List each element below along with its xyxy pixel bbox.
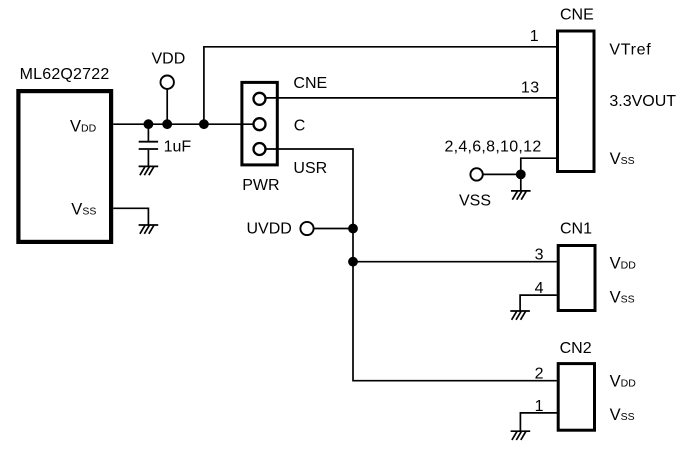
junction dot A2 <box>162 119 172 129</box>
PWR pin circle CNE <box>254 93 266 105</box>
svg-text:2: 2 <box>535 366 544 383</box>
junction dot B1 <box>348 224 358 234</box>
junction dot C1 <box>516 170 526 180</box>
svg-text:VTref: VTref <box>609 42 651 59</box>
connector PWR box <box>242 82 277 164</box>
ground at CN1 pin 4 <box>510 311 530 320</box>
wire to CNE pin 1 <box>204 47 557 124</box>
ground at VSS junction <box>511 191 531 200</box>
svg-text:VDD: VDD <box>152 50 186 67</box>
svg-text:ML62Q2722: ML62Q2722 <box>20 66 110 83</box>
capacitor C1 stem bottom <box>147 150 149 167</box>
svg-text:CN2: CN2 <box>560 340 592 357</box>
power terminal VDD circle <box>161 76 174 89</box>
junction dot B2 <box>348 257 358 267</box>
junction dot A1 <box>144 119 154 129</box>
connector CN1 box <box>558 246 595 311</box>
svg-text:VSS: VSS <box>459 193 491 210</box>
terminal UVDD circle <box>300 222 313 235</box>
svg-text:3: 3 <box>535 246 544 263</box>
capacitor C1 plates <box>139 141 158 143</box>
wire PWR USR down and right to CN2 pin 2 <box>267 149 557 381</box>
svg-text:CNE: CNE <box>560 7 594 24</box>
svg-text:CNE: CNE <box>293 75 327 92</box>
wire UVDD to vertical rail <box>314 228 353 230</box>
svg-text:CN1: CN1 <box>560 221 592 238</box>
wire VSS terminal to junction <box>484 173 521 175</box>
connector CN2 box <box>558 364 594 431</box>
capacitor C1 stem top <box>147 124 149 141</box>
wire VDD main rail <box>113 123 253 125</box>
svg-text:1uF: 1uF <box>164 139 192 156</box>
wire CNE VSS pin to ground rail <box>521 158 557 191</box>
ground at CN2 pin 1 <box>511 431 531 440</box>
svg-text:USR: USR <box>293 160 327 177</box>
ground for IC VSS <box>139 225 159 234</box>
PWR pin circle C <box>254 118 266 130</box>
IC U1 ML62Q2722 box <box>18 91 111 242</box>
ground under capacitor <box>139 166 159 175</box>
junction dot A3 <box>199 119 209 129</box>
wire CN1 pin 4 to ground <box>520 295 557 311</box>
svg-text:PWR: PWR <box>242 177 279 194</box>
svg-text:UVDD: UVDD <box>247 221 292 238</box>
svg-text:1: 1 <box>530 28 539 45</box>
wire IC VSS to ground <box>113 208 148 225</box>
svg-text:3.3VOUT: 3.3VOUT <box>609 93 676 110</box>
svg-text:13: 13 <box>521 80 540 97</box>
svg-text:2,4,6,8,10,12: 2,4,6,8,10,12 <box>444 138 541 155</box>
wire VDD terminal stem <box>166 90 168 125</box>
svg-text:C: C <box>294 118 306 135</box>
PWR pin circle USR <box>254 143 266 155</box>
connector CNE box <box>558 31 595 172</box>
terminal VSS circle <box>470 168 482 180</box>
wire PWR CNE to CNE pin 13 <box>267 97 557 99</box>
wire to CN1 pin 3 <box>353 261 557 263</box>
wire CN2 pin 1 to ground <box>520 413 557 431</box>
